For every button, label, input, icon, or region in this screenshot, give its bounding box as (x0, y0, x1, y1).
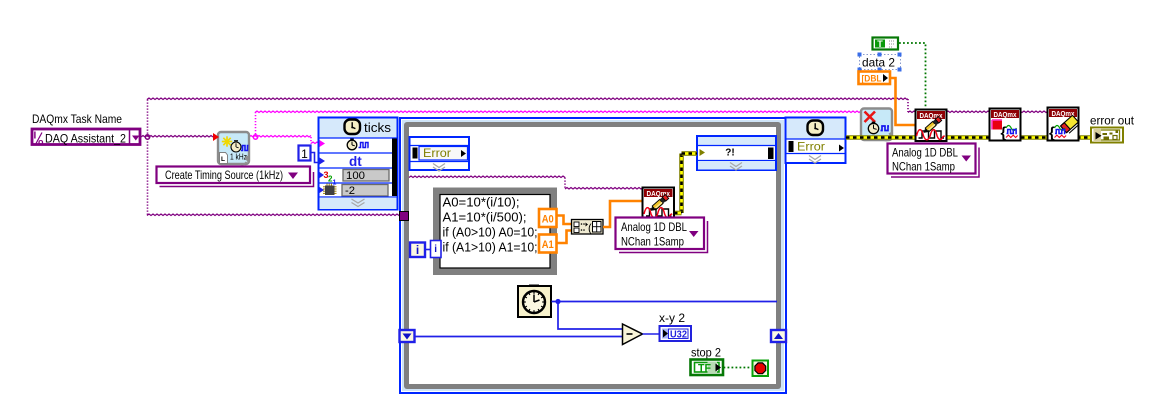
terminal: formula output A0 (539, 209, 557, 227)
terminal: loop condition (stop sign) (753, 361, 769, 377)
constant: data 2 array [DBL] (859, 72, 891, 85)
svg-text:DAQmx Task Name: DAQmx Task Name (32, 112, 122, 126)
wire: tick count down to subtract (558, 302, 622, 330)
label: data 2 (with selection marquee) (860, 55, 901, 70)
wire junction: tick count (555, 299, 560, 304)
wire: data 2 to DAQmx Write 2 (orange) (891, 78, 916, 125)
wire: A1 to build array (orange) (557, 231, 572, 244)
wire: True constant to DAQmx Write 2 autostart (green dotted) (899, 43, 926, 108)
svg-text:NChan 1Samp: NChan 1Samp (621, 235, 684, 249)
svg-text:I: I (34, 131, 37, 142)
wire: task branch vertical left edge (147, 100, 149, 216)
vi: DAQmx Stop (990, 109, 1021, 141)
vi: DAQmx Create Timing Source (1kHz) (218, 132, 249, 164)
svg-text:stop 2: stop 2 (691, 346, 721, 360)
svg-text:Analog 1D DBL: Analog 1D DBL (621, 220, 687, 234)
node: Timed Loop input node (ticks) (319, 118, 398, 210)
dropdown: Analog 1D DBL NChan 1Samp (inside loop) (619, 221, 708, 253)
svg-text:DAQ Assistant_2: DAQ Assistant_2 (45, 132, 126, 146)
vi: DAQmx Write 2 (916, 110, 947, 142)
wire: subtract to x-y 2 (blue) (643, 333, 660, 335)
ticks node row: dt (320, 158, 326, 165)
function: build array (572, 220, 604, 235)
ticks node black bar (392, 139, 397, 197)
node: left Error pass-through (410, 137, 470, 170)
control: DAQmx task name constant DAQ Assistant_2 (32, 129, 140, 145)
svg-text:NChan 1Samp: NChan 1Samp (892, 160, 955, 174)
wire: task inside loop to DAQmx Write (purple zigzag) (409, 176, 565, 178)
vi: Clear Timing Source (861, 109, 892, 141)
wire: timing source name up and across to Clear Timing Source (255, 112, 257, 135)
svg-text:A0=10*(i/10);: A0=10*(i/10); (443, 196, 520, 210)
tunnel: task wire enters Timed Loop (400, 212, 409, 221)
svg-text:error out: error out (1090, 114, 1135, 128)
svg-text:Create Timing Source (1kHz): Create Timing Source (1kHz) (165, 168, 283, 182)
svg-text:Error: Error (423, 146, 451, 160)
dropdown: Create Timing Source (1kHz) (160, 172, 314, 187)
svg-text:Analog 1D DBL: Analog 1D DBL (892, 146, 958, 160)
svg-text:ticks: ticks (364, 121, 391, 135)
wire: build array to DAQmx Write (orange) (603, 201, 643, 227)
wire: timing source name out of Create Timing Source (249, 136, 311, 138)
svg-text:T: T (877, 39, 883, 49)
svg-text:1 kHz: 1 kHz (230, 153, 247, 162)
wire: error chain across DAQmx VIs (olive dashed) (846, 135, 1090, 140)
svg-text:U32: U32 (670, 330, 687, 341)
svg-text:if (A1>10) A1=10;: if (A1>10) A1=10; (443, 241, 538, 255)
svg-text:L: L (221, 156, 225, 163)
function: subtract (623, 324, 643, 345)
shift register: right (771, 330, 786, 342)
ticks node row: processor -2 (320, 187, 325, 193)
ticks node row: period 100 (320, 172, 325, 178)
wire junction: task wire branch at left (145, 135, 149, 139)
vi: DAQmx Clear (1048, 108, 1079, 141)
structure: formula node (433, 188, 557, 276)
red input arrow on Create Timing Source (213, 133, 219, 141)
svg-text:A1=10*(i/500);: A1=10*(i/500); (443, 211, 527, 225)
svg-text:1: 1 (301, 147, 308, 161)
control: stop 2 (boolean) (691, 360, 724, 376)
tunnel: formula node input i (431, 241, 442, 258)
svg-text:TF: TF (698, 363, 711, 375)
svg-text:{: { (1049, 125, 1055, 142)
wire: task branch bottom edge into loop tunnel (147, 214, 400, 216)
wire: i to formula node (426, 249, 432, 251)
wire: left shift register to subtract (blue) (415, 336, 622, 338)
svg-text:i: i (434, 244, 437, 255)
ticks node row: timing source input (320, 140, 326, 147)
node: Timed Loop output node (Error) (786, 118, 846, 164)
wire: stop 2 to loop condition (green dotted) (724, 367, 753, 369)
indicator: error out (1091, 128, 1123, 143)
wire: task top edge drop to DAQmx Write 2 (907, 99, 909, 112)
constant: True (boolean) (873, 38, 899, 50)
wire: A0 to build array (orange) (557, 216, 572, 225)
node: right ?! pass-through (697, 136, 776, 170)
structure: Timed Loop border (400, 118, 786, 393)
wire: tick count to right border (blue) (552, 301, 778, 303)
svg-text:DAQmx: DAQmx (994, 110, 1018, 119)
svg-text:x-y 2: x-y 2 (659, 311, 685, 325)
svg-text:Error: Error (797, 140, 825, 154)
svg-text:?!: ?! (725, 148, 734, 159)
svg-text:A1: A1 (542, 239, 554, 251)
svg-text:(: ( (588, 223, 592, 235)
svg-text:i: i (416, 243, 419, 257)
dropdown: Analog 1D DBL NChan 1Samp 2 (891, 148, 979, 178)
svg-text:o: o (38, 137, 44, 147)
wire junction: timing source name (253, 135, 257, 139)
svg-text:if (A0>10) A0=10;: if (A0>10) A0=10; (443, 226, 538, 240)
svg-text:{: { (1001, 125, 1007, 142)
svg-text:-2: -2 (345, 185, 355, 197)
wire: DAQmx task (purple zigzag) control to Create Timing Source (141, 136, 213, 138)
indicator: x-y 2 (U32) (660, 326, 692, 341)
svg-text:[DBL: [DBL (862, 74, 882, 85)
terminal: iteration i (410, 243, 425, 258)
wire: task to DAQmx Stop and DAQmx Clear (946, 111, 1048, 113)
svg-text:A0: A0 (542, 214, 554, 226)
terminal: formula output A1 (539, 235, 557, 253)
wire: timing source name into ticks node (310, 137, 312, 144)
shift register: left (400, 330, 415, 342)
svg-text:dt: dt (349, 154, 362, 169)
svg-text:100: 100 (346, 170, 365, 182)
vi: Tick Count (ms) (518, 286, 551, 317)
wire: error DAQmx Write to ?! node (olive dashed) (679, 154, 684, 214)
wire: task branch top edge (147, 98, 908, 100)
vi: DAQmx Write (inside loop) (643, 188, 675, 220)
svg-text:data 2: data 2 (862, 56, 895, 70)
constant: 1 (numeric) (299, 146, 311, 161)
wire: constant 1 to dt input (311, 153, 319, 163)
